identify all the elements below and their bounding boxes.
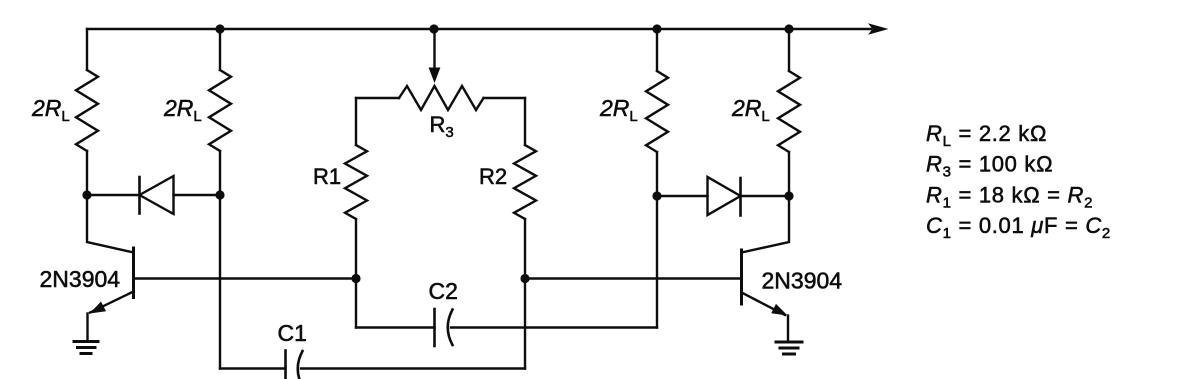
- wire C2 left horizontal: [356, 326, 435, 328]
- wire R1 bottom lead: [355, 219, 357, 279]
- transistor Q1 collector lead: [87, 195, 134, 253]
- svg-text:2RL: 2RL: [599, 95, 638, 125]
- node Q2 base dot: [520, 274, 529, 283]
- wire C1 left vertical: [219, 195, 221, 369]
- node junction dot rail x789: [784, 24, 793, 33]
- transistor Q1 emitter lead: [90, 292, 134, 313]
- transistor Q2 emitter arrowhead: [771, 304, 787, 316]
- wire 2RL d bottom lead: [788, 152, 790, 196]
- svg-text:RL = 2.2 kΩ: RL = 2.2 kΩ: [926, 121, 1047, 150]
- transistor Q2 collector lead: [742, 196, 790, 253]
- svg-text:2RL: 2RL: [163, 95, 202, 125]
- wire C2 left vertical: [355, 279, 357, 328]
- svg-text:R3: R3: [430, 112, 454, 141]
- ground G2: [776, 342, 802, 354]
- resistor R2: [514, 145, 536, 219]
- node junction dot rail x657: [652, 24, 661, 33]
- wire 2RL a bottom lead: [86, 151, 88, 195]
- resistor 2RL a: [76, 70, 98, 151]
- svg-text:R1 = 18 kΩ = R2: R1 = 18 kΩ = R2: [926, 183, 1093, 212]
- node junction dot rail x220: [215, 24, 224, 33]
- transistor Q1 emitter arrowhead: [90, 302, 107, 314]
- svg-text:C1: C1: [278, 320, 307, 346]
- diode D1 cathode bar: [138, 177, 141, 214]
- wire C2 right horizontal: [451, 326, 657, 328]
- wire Q1 emitter to ground: [86, 314, 88, 342]
- diode D2 cathode bar: [739, 178, 742, 216]
- wire C1 right horizontal: [301, 367, 525, 369]
- svg-text:C2: C2: [429, 278, 458, 304]
- wire R2 top lead: [524, 98, 526, 145]
- resistor 2RL d: [778, 71, 800, 152]
- node Q1 collector dot: [82, 190, 91, 199]
- node Q2 collector dot: [784, 191, 793, 200]
- capacitor C1 left plate: [284, 351, 287, 379]
- diode D2 triangle: [708, 177, 741, 215]
- svg-text:R2: R2: [479, 164, 507, 189]
- capacitor C1 right plate: [298, 351, 303, 379]
- resistor 2RL b: [209, 70, 231, 151]
- wire top supply rail: [87, 28, 871, 30]
- svg-text:R3 = 100 kΩ: R3 = 100 kΩ: [926, 152, 1053, 181]
- node junction dot rail x434 (wiper tap): [429, 24, 438, 33]
- wire 2RL c bottom lead: [656, 152, 658, 196]
- wire Q1 base to R1 node: [134, 277, 357, 279]
- resistor 2RL c: [646, 71, 668, 152]
- wire C1 left horizontal: [220, 367, 286, 369]
- potentiometer R3 right lead: [484, 97, 526, 99]
- wire Q2 base to R2 node: [525, 277, 742, 279]
- transistor Q1 base bar: [132, 248, 135, 298]
- diode D1 anode lead: [174, 194, 221, 196]
- ground G1: [74, 342, 98, 354]
- diode D1 cathode lead: [87, 194, 140, 196]
- svg-text:2N3904: 2N3904: [40, 266, 121, 292]
- wire rail drop to 2RL c: [656, 29, 658, 71]
- wire Q2 emitter to ground: [787, 316, 789, 343]
- svg-text:2RL: 2RL: [731, 95, 770, 125]
- transistor Q2 emitter lead: [742, 293, 786, 316]
- wire wiper arrow stem: [433, 29, 435, 69]
- wire rail drop to 2RL d: [788, 29, 790, 71]
- resistor R1: [345, 145, 367, 219]
- wire rail drop to 2RL b: [219, 29, 221, 70]
- capacitor C2 right plate: [448, 310, 453, 346]
- node Q1 base dot: [351, 274, 360, 283]
- wire R2 bottom lead: [524, 219, 526, 279]
- svg-text:2RL: 2RL: [31, 95, 70, 125]
- svg-text:2N3904: 2N3904: [762, 268, 843, 294]
- potentiometer R3 left lead: [356, 97, 399, 99]
- arrowhead supply rail: [868, 23, 889, 35]
- arrowhead wiper: [429, 68, 441, 84]
- wire R1 top lead: [355, 98, 357, 145]
- diode D1 triangle: [140, 176, 174, 214]
- wire C2 right vertical: [656, 196, 658, 328]
- diode D2 cathode lead: [741, 195, 790, 197]
- wire C1 right vertical: [524, 279, 526, 369]
- potentiometer R3 body: [399, 86, 484, 110]
- wire 2RL b bottom lead: [219, 151, 221, 195]
- node D1 anode dot: [215, 190, 224, 199]
- svg-text:C1 = 0.01 μF = C2: C1 = 0.01 μF = C2: [926, 213, 1111, 242]
- wire rail drop to 2RL a: [86, 29, 88, 70]
- diode D2 anode lead: [657, 195, 708, 197]
- transistor Q2 base bar: [740, 250, 743, 304]
- svg-text:R1: R1: [313, 164, 341, 189]
- capacitor C2 left plate: [433, 309, 436, 346]
- node D2 anode dot: [652, 191, 661, 200]
